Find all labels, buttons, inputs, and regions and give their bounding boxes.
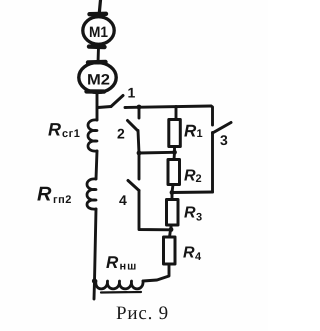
switch 4 <box>119 181 139 209</box>
resistor R3 <box>167 193 203 230</box>
node: R3-R4 junction <box>169 227 174 232</box>
svg-text:4: 4 <box>195 251 202 263</box>
left rail: node to switch 4 <box>138 153 141 179</box>
wire: between field coils <box>96 151 97 179</box>
svg-text:3: 3 <box>196 212 202 224</box>
wire: M1 to M2 <box>97 47 100 63</box>
svg-text:2: 2 <box>196 173 202 185</box>
wire: top supply lead <box>99 0 101 16</box>
switch 2 <box>117 121 138 142</box>
svg-text:1: 1 <box>197 128 203 140</box>
svg-text:Рис. 9: Рис. 9 <box>116 303 169 324</box>
inductor Rнш (horizontal) <box>96 253 143 293</box>
svg-text:R: R <box>48 120 61 140</box>
node: top rail / left rail junction <box>137 105 142 110</box>
left rail: top segment <box>138 107 141 118</box>
svg-text:R: R <box>106 253 119 272</box>
wire: coil 2 down to bottom node <box>94 209 96 299</box>
svg-text:R: R <box>184 122 197 141</box>
switch 3 <box>213 123 232 149</box>
wire: M2 down to series branch <box>96 93 99 120</box>
switch 1 <box>98 85 136 108</box>
wire: top rail to right branch <box>125 106 211 108</box>
svg-text:R: R <box>184 168 196 185</box>
svg-text:сг1: сг1 <box>62 128 80 140</box>
svg-text:гп2: гп2 <box>53 194 72 206</box>
inductor Rгп2 <box>37 179 96 209</box>
svg-text:М1: М1 <box>89 24 108 41</box>
resistor R2 <box>168 152 202 192</box>
svg-text:R: R <box>184 205 196 222</box>
svg-text:1: 1 <box>128 85 136 101</box>
left rail: switch 2 to node <box>138 131 139 154</box>
svg-text:нш: нш <box>120 261 138 273</box>
right branch: top corner down to switch 3 <box>211 106 213 125</box>
svg-text:3: 3 <box>220 132 228 148</box>
inductor Rсг1 <box>48 120 97 152</box>
node: R2-R3 junction <box>170 190 175 195</box>
svg-text:4: 4 <box>119 192 127 208</box>
wire: tie to R1-R2 junction <box>139 151 174 155</box>
wire: bottom rail from Rнш to R4 <box>143 264 169 281</box>
resistor R4 <box>164 230 203 264</box>
right branch: switch 3 down to bottom corner <box>211 133 214 193</box>
motor M2 <box>79 62 116 92</box>
wire: left rail bottom corner to R3-R4 junction <box>139 191 171 230</box>
node: R1-R2 junction <box>172 150 177 155</box>
node: bottom left junction <box>92 278 97 283</box>
resistor R1 <box>169 107 203 153</box>
svg-text:R: R <box>37 184 52 206</box>
svg-text:R: R <box>183 245 195 262</box>
svg-text:М2: М2 <box>87 72 110 89</box>
svg-text:2: 2 <box>117 126 125 142</box>
node: left rail / R1-R2 tie <box>137 151 142 156</box>
wire: R2-R3 junction to right branch <box>172 191 213 194</box>
motor M1 <box>83 14 114 47</box>
